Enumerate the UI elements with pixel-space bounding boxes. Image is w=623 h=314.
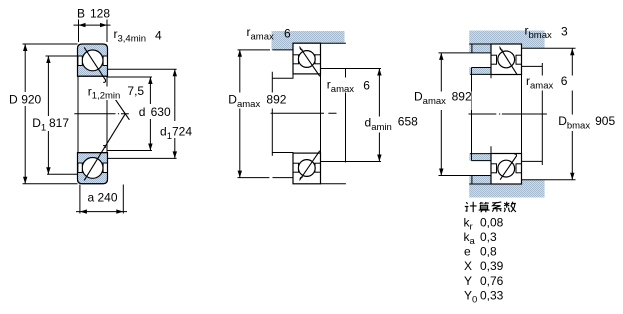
svg-text:a240: a240 bbox=[88, 191, 118, 205]
svg-text:B128: B128 bbox=[77, 7, 110, 21]
svg-text:d630: d630 bbox=[139, 105, 171, 119]
svg-text:rbmax3: rbmax3 bbox=[525, 24, 569, 41]
svg-text:D920: D920 bbox=[9, 92, 42, 106]
svg-text:e0,8: e0,8 bbox=[464, 245, 497, 259]
svg-text:Y0,76: Y0,76 bbox=[464, 274, 504, 288]
svg-text:Y00,33: Y00,33 bbox=[464, 289, 504, 306]
svg-text:X0,39: X0,39 bbox=[464, 259, 504, 273]
svg-text:r3,4min4: r3,4min4 bbox=[114, 27, 163, 44]
svg-text:d1724: d1724 bbox=[160, 125, 192, 142]
svg-text:D1817: D1817 bbox=[32, 116, 69, 133]
svg-text:7,5: 7,5 bbox=[127, 84, 144, 98]
svg-text:ramax6: ramax6 bbox=[247, 25, 292, 42]
